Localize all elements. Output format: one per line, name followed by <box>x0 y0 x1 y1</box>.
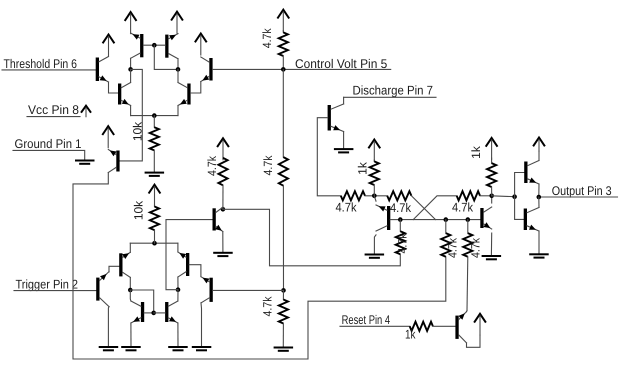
wire Q21 emitter to Vcc arrow <box>467 335 481 347</box>
transistor Q18 driver <box>480 207 491 229</box>
power Vcc arrow above Q1 <box>103 35 115 57</box>
resistor R3 4.7k divider middle <box>279 157 288 186</box>
wire Q14 collector to right node <box>177 290 179 301</box>
ground below Q14 <box>168 346 188 351</box>
wire Q6 collector to Q3 base <box>191 82 201 94</box>
power Vcc arrow at Q21 emitter <box>474 314 486 336</box>
value label 4.7k R10 <box>452 201 474 215</box>
wire Q10 base to Q13 <box>189 265 201 277</box>
wire input to Q19 base <box>515 173 525 197</box>
svg-text:4.7k: 4.7k <box>396 233 410 254</box>
value label 1k R15 <box>405 328 416 342</box>
node Ground Pin 1 label <box>15 137 82 151</box>
transistor Q5 current mirror left <box>131 33 144 58</box>
wire Q17 base to rail <box>390 219 400 221</box>
node lower rail junction D3 <box>466 217 471 222</box>
svg-text:4.7k: 4.7k <box>452 201 474 215</box>
transistor Q1 threshold input <box>96 57 109 83</box>
wire emitter tail rail <box>131 115 178 117</box>
transistor Q7 trigger input <box>96 272 109 307</box>
svg-text:1k: 1k <box>356 161 370 175</box>
power Vcc arrow above R14 1k <box>486 138 498 160</box>
wire Q9 base to bases node <box>144 312 154 314</box>
transistor Q19 output high <box>524 161 539 185</box>
node trigger tail junction <box>152 241 157 246</box>
resistor R14 1k right <box>487 158 496 196</box>
power Vcc arrow above Q19 <box>533 138 545 152</box>
resistor R15 1k reset <box>410 322 433 331</box>
node discharge rail junction <box>372 194 377 199</box>
ground below R4 <box>274 347 294 352</box>
svg-text:Vcc Pin 8: Vcc Pin 8 <box>28 103 79 117</box>
node Control Volt Pin 5 label <box>295 57 387 71</box>
power Vcc arrow above R2 <box>277 10 289 32</box>
wire Q10 emitter to tail rail <box>177 243 179 252</box>
wire Q17 emitter to ground <box>374 235 376 254</box>
node left collector junction <box>128 67 133 72</box>
ground below Q18 <box>482 255 502 260</box>
wire Q2 emitter to tail rail <box>130 106 132 116</box>
node right collector junction <box>176 67 181 72</box>
wire Q20 emitter to ground <box>538 231 540 253</box>
wire Q13 collector to ground <box>200 303 203 346</box>
value label 4.7k R6 <box>205 155 219 176</box>
wire Q20 collector to output node <box>538 197 540 208</box>
power Vcc arrow above R9 1k <box>368 140 380 162</box>
resistor R10 4.7k rail third <box>457 191 480 200</box>
node one-third Vcc junction <box>281 288 286 293</box>
wire Q15 collector to lower bus <box>73 173 446 360</box>
transistor Q21 reset <box>455 312 466 343</box>
svg-text:10k: 10k <box>131 121 145 141</box>
transistor Q6 control input <box>201 57 213 82</box>
power Vcc arrow above Q4 <box>171 12 183 34</box>
wire Q11 collector to node <box>222 207 224 209</box>
wire Q11 collector to crossover <box>223 209 400 265</box>
ground at Ground Pin 1 <box>75 160 95 165</box>
wire Q8 emitter to tail rail <box>129 243 131 252</box>
resistor R4 4.7k divider bottom <box>279 290 288 346</box>
node tail rail junction <box>152 113 157 118</box>
svg-text:4.7k: 4.7k <box>469 237 483 258</box>
transistor Q9 mirror left <box>131 301 144 323</box>
svg-text:Threshold Pin 6: Threshold Pin 6 <box>4 57 78 71</box>
node output stage input junction <box>512 194 517 199</box>
wire Q18 collector to junction <box>491 196 493 203</box>
wire divider lower segment <box>282 186 284 291</box>
transistor Q2 darlington left <box>118 83 131 106</box>
value label 4.7k R7 <box>336 201 358 215</box>
ground below Q9 <box>121 346 141 351</box>
svg-text:Ground Pin 1: Ground Pin 1 <box>15 137 82 151</box>
node Q11 collector junction <box>221 207 226 212</box>
wire R15 to Q21 base <box>433 325 456 327</box>
wire Q21 collector to R13 <box>466 311 469 312</box>
value label 4.7k R13 <box>469 237 483 258</box>
svg-text:1k: 1k <box>469 145 483 159</box>
value label 1k R14 <box>469 145 483 159</box>
svg-text:4.7k: 4.7k <box>261 296 275 317</box>
wire Q5 collector down to node <box>130 58 132 69</box>
transistor Q3 darlington right <box>178 83 191 106</box>
node Vcc Pin 8 label <box>27 103 80 117</box>
resistor R2 4.7k divider top <box>279 31 288 70</box>
transistor Q4 current mirror right <box>165 34 178 59</box>
wire Q19 emitter to output node <box>538 184 540 197</box>
wire comparator output to Q15 base <box>120 69 143 160</box>
wire Q14 emitter to ground <box>177 323 179 346</box>
wire Q16 emitter to ground <box>343 132 345 149</box>
wire Q4 collector down to node <box>177 59 179 70</box>
resistor R13 4.7k below D3 <box>463 220 472 311</box>
value label 10k R1 <box>131 121 145 141</box>
resistor R11 4.7k below D1 <box>396 220 405 255</box>
wire trigger tail rail <box>130 242 178 244</box>
node mirror bases junction lower <box>151 311 156 316</box>
resistor R8 4.7k rail second <box>387 191 411 200</box>
wire Q2 collector up to node <box>130 69 132 82</box>
ground below Q13 <box>192 346 212 351</box>
node Threshold Pin 6 label <box>4 57 78 71</box>
power Vcc arrow at Vcc Pin 8 <box>81 106 91 117</box>
node lower rail junction D1 <box>398 217 403 222</box>
value label 1k R9 <box>356 161 370 175</box>
svg-text:Trigger Pin 2: Trigger Pin 2 <box>16 278 79 292</box>
svg-text:Control Volt Pin 5: Control Volt Pin 5 <box>295 57 387 71</box>
node Discharge Pin 7 label <box>353 84 434 98</box>
resistor R12 4.7k below D2 <box>441 220 450 257</box>
value label 4.7k R3 <box>261 155 275 176</box>
ground below Q20 <box>529 253 549 258</box>
svg-text:Output Pin 3: Output Pin 3 <box>552 184 612 198</box>
wire crossover lower-left to upper-right <box>413 196 457 220</box>
wire Q18 emitter to ground <box>490 233 492 255</box>
wire threshold pin to Q1 base <box>2 69 96 71</box>
resistor R1 10k tail <box>150 116 159 172</box>
node right output junction <box>176 287 181 292</box>
svg-text:4.7k: 4.7k <box>260 27 274 48</box>
wire rail lead to R8 <box>365 195 387 197</box>
value label 4.7k R11 <box>396 233 410 254</box>
power Vcc arrow above Q5 <box>125 12 137 33</box>
svg-text:4.7k: 4.7k <box>390 201 412 215</box>
node control voltage junction <box>281 67 286 72</box>
wire trigger pin to Q7 base <box>14 290 96 292</box>
wire control volt node <box>283 68 390 70</box>
ground below Q11 <box>213 252 233 257</box>
node output junction <box>537 195 542 200</box>
power Vcc arrow above Q15 <box>102 126 114 148</box>
resistor R6 4.7k Q11 load <box>218 157 227 209</box>
transistor Q20 output low <box>524 208 539 232</box>
wire Q10 collector to node <box>177 277 179 290</box>
wire Q13 base to one-third node <box>213 289 284 291</box>
node output driver junction <box>489 194 494 199</box>
wire output node <box>539 196 618 198</box>
svg-text:4.7k: 4.7k <box>446 237 460 258</box>
power Vcc arrow above R5 <box>149 185 161 207</box>
transistor Q10 darlington right <box>178 252 189 277</box>
transistor Q15 stage <box>108 150 119 173</box>
transistor Q11 flip flop <box>213 207 223 231</box>
wire Q16 base down to rail <box>317 118 341 196</box>
svg-text:4.7k: 4.7k <box>205 155 219 176</box>
node mirror bases junction <box>152 43 157 48</box>
value label 4.7k R12 <box>446 237 460 258</box>
transistor Q13 reference <box>201 277 213 303</box>
resistor R5 10k trigger tail <box>150 205 159 243</box>
node Output Pin 3 label <box>552 184 612 198</box>
node Reset Pin 4 label <box>342 313 391 327</box>
wire Q7 emitter to Q8 base <box>109 266 119 272</box>
wire Q7 collector to ground <box>107 307 110 346</box>
wire Q9 emitter to ground <box>130 323 132 346</box>
wire junction to output stage <box>492 195 515 198</box>
resistor R9 1k <box>370 160 379 196</box>
svg-text:4.7k: 4.7k <box>261 155 275 176</box>
wire Q8 collector to node <box>129 277 131 290</box>
wire Q9 collector to left node <box>129 290 132 301</box>
wire ground pin 1 to ground symbol <box>13 150 85 159</box>
wire divider mid segment <box>282 69 284 157</box>
svg-text:4.7k: 4.7k <box>336 201 358 215</box>
resistor R7 4.7k rail first <box>341 191 365 200</box>
transistor Q16 discharge <box>328 104 344 132</box>
wire Q19 collector to Vcc arrow <box>538 151 540 161</box>
node Trigger Pin 2 label <box>16 278 79 292</box>
wire input to Q20 base <box>515 197 524 220</box>
wire Q6 base to control node <box>213 68 284 70</box>
wire left node to mirror bases <box>130 290 153 313</box>
value label 4.7k R2 <box>260 27 274 48</box>
svg-text:Reset Pin 4: Reset Pin 4 <box>342 313 391 327</box>
ground below Q7 <box>99 346 119 351</box>
wire Q17 collector to node <box>374 196 376 201</box>
wire reset pin to R15 <box>340 325 410 327</box>
wire crossover upper-left to lower-right <box>411 196 435 220</box>
power Vcc arrow above R6 <box>217 138 229 160</box>
ground below Q17 <box>365 254 385 259</box>
ground below R1 <box>145 172 165 177</box>
wire Q3 emitter to tail rail <box>177 106 179 116</box>
wire lower rail <box>400 219 480 221</box>
wire Q1 collector to Q2 base <box>109 82 119 93</box>
wire rail to output junction <box>480 195 492 197</box>
svg-text:Discharge Pin 7: Discharge Pin 7 <box>353 84 434 98</box>
node lower rail junction D2 <box>444 217 449 222</box>
wire Q3 collector up to node <box>177 69 179 82</box>
node left output junction <box>128 288 133 293</box>
transistor Q17 flip flop <box>376 205 390 231</box>
wire discharge label to Q16 collector <box>344 97 436 104</box>
power Vcc arrow above Q6 <box>195 34 207 56</box>
value label 10k R5 <box>132 200 146 220</box>
wire Q14 base to bases node <box>154 312 165 314</box>
value label 4.7k R4 <box>261 296 275 317</box>
svg-text:10k: 10k <box>132 200 146 220</box>
transistor Q8 darlington <box>119 252 130 277</box>
wire Q4 Q5 base tie <box>143 44 165 46</box>
ground below Q16 <box>334 148 354 153</box>
wire mirror bases to right node <box>154 45 178 69</box>
svg-text:1k: 1k <box>405 328 416 342</box>
wire Q11 emitter to ground <box>222 232 224 252</box>
transistor Q14 mirror right <box>165 301 178 323</box>
value label 4.7k R8 <box>390 201 412 215</box>
wire right node to Q11 base <box>166 220 213 290</box>
